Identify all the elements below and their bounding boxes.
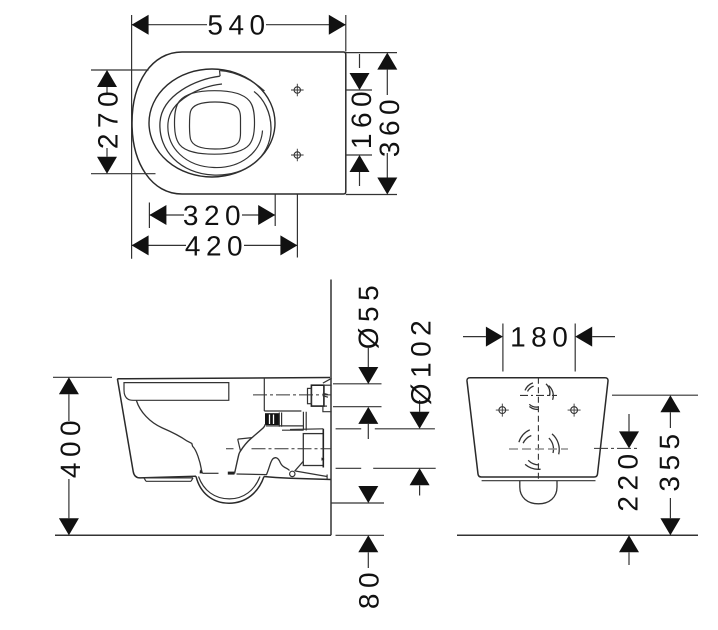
dimension 320 [149,195,275,229]
outlet box [303,434,323,466]
dimension 420 [132,195,298,258]
rear mounting hole right [568,404,581,417]
top view body outline [132,52,346,194]
rear outlet dash centerline extension [594,447,640,449]
inner back vertical [263,378,265,411]
svg-text:400: 400 [55,415,86,478]
dimension 180 [463,324,615,372]
bowl underside inner U [199,477,261,499]
dimension 270 [91,70,156,174]
dimension 220 [619,414,639,565]
floor extension right of wall [336,534,385,536]
water outline [175,91,255,155]
outlet box right edge bold [322,429,324,468]
centerline inlet (dash-dot) [253,394,331,396]
flush channel verticals [303,412,306,431]
svg-text:420: 420 [185,230,248,261]
bowl interior front curve [136,401,202,474]
outlet trap tip circle [290,471,295,476]
weir crest flag [238,438,252,451]
extension line outlet top [336,428,435,430]
rear center line [537,378,539,481]
outlet diagonal to box corner [295,461,304,471]
extension line outlet bottom [336,467,436,469]
dimension 355 [612,395,698,535]
toilet top edge [117,378,330,379]
floor line left [55,534,331,536]
rear outlet dash centerline [509,448,568,450]
dimension D102 [410,400,430,496]
svg-text:360: 360 [374,94,405,157]
bracket slits [270,415,274,425]
extension line outlet lowest [331,502,384,504]
svg-text:320: 320 [183,200,246,231]
drain outline [190,102,241,149]
outlet vertical tick [326,475,328,480]
trap outlet duck curve [237,458,290,475]
rear mounting hole left [496,404,509,417]
inner rim notch [219,70,222,76]
rim shelf line [168,84,263,168]
svg-text:540: 540 [207,10,270,41]
inlet spigot [308,378,332,411]
dimension D55 [358,348,378,439]
rear inlet dash centerline [520,394,557,396]
outlet underside second line [295,471,327,477]
rear body outline [467,378,608,477]
dimension 160 [346,54,372,186]
outlet box marker tick [322,458,325,461]
svg-text:160: 160 [346,86,377,149]
outlet underside to wall [264,477,331,480]
mounting hole upper (top view) [291,84,304,97]
extension line inlet bottom [333,406,382,408]
mounting hole lower (top view) [291,149,304,162]
toilet front face [117,379,196,478]
dimension 540 [132,15,346,259]
svg-text:270: 270 [93,86,124,149]
extension line inlet top [333,383,382,385]
inner back shelf top [264,410,301,412]
wall line [330,280,332,536]
svg-text:Ø55: Ø55 [353,280,384,349]
inner rim line right of notch [220,71,264,91]
outer rim ellipse [149,69,275,177]
svg-text:355: 355 [654,428,685,491]
fixing bracket black [265,413,280,425]
rear outlet hidden arcs [519,430,559,470]
bowl floor left segment [203,472,219,474]
centerline outlet (dash-dot) [226,448,331,450]
bracket side plate [279,413,281,427]
dimension 360 [346,53,398,195]
svg-text:Ø102: Ø102 [405,315,436,406]
bottom band [144,478,193,481]
rear bottom protrusion [520,481,557,504]
dimension 400 [53,377,112,535]
rear inlet hidden arcs [525,383,553,410]
floor line right [457,534,698,536]
bowl underside outer U [196,476,264,503]
bowl floor middle segment [228,472,235,475]
weir rise curve [235,424,266,473]
dimension 80 [358,486,378,568]
rear bottom band [482,480,596,482]
svg-text:220: 220 [613,448,644,511]
rim surface strip [124,383,229,401]
svg-text:80: 80 [354,567,385,609]
shelf double lines [266,426,303,430]
bowl floor wedge [200,470,204,474]
outlet shelf slant [290,428,323,431]
svg-text:180: 180 [510,322,573,353]
inner rim C-curve [160,76,271,175]
